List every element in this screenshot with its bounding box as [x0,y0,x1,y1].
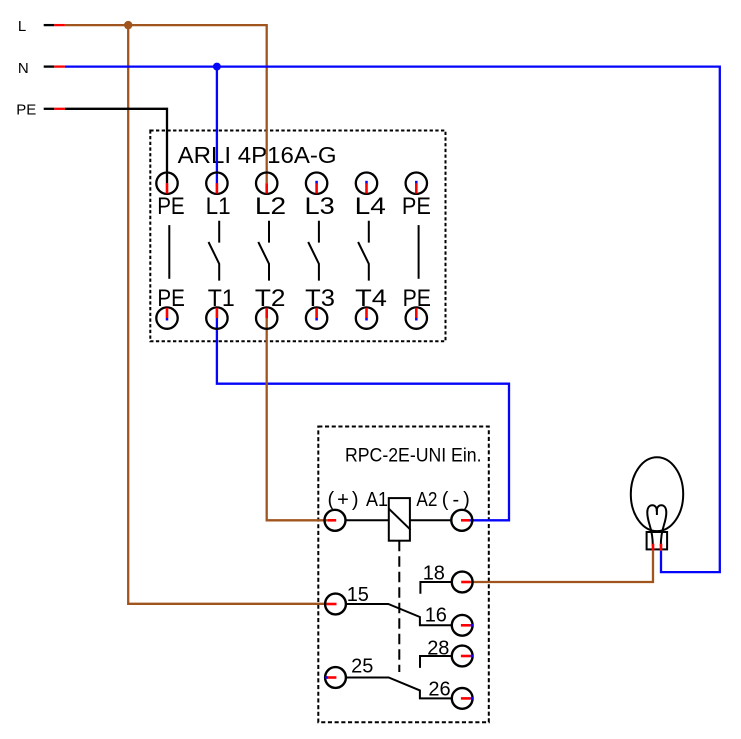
svg-text:(+): (+) [328,489,359,511]
svg-text:A1: A1 [366,489,388,511]
svg-text:(-): (-) [442,489,470,511]
svg-text:L1: L1 [206,193,231,220]
svg-text:RPC-2E-UNI Ein.: RPC-2E-UNI Ein. [345,445,482,466]
svg-text:L: L [18,18,26,35]
svg-text:A2: A2 [416,489,437,511]
svg-text:L4: L4 [355,193,386,220]
svg-text:PE: PE [16,102,36,119]
svg-text:25: 25 [351,656,373,678]
svg-text:ARLI 4P16A-G: ARLI 4P16A-G [178,142,337,168]
svg-text:L2: L2 [255,193,286,220]
svg-text:16: 16 [425,604,447,626]
svg-text:15: 15 [347,584,369,606]
svg-text:PE: PE [402,193,431,220]
svg-text:L3: L3 [305,193,335,220]
svg-text:PE: PE [157,193,185,220]
svg-text:N: N [18,60,29,77]
